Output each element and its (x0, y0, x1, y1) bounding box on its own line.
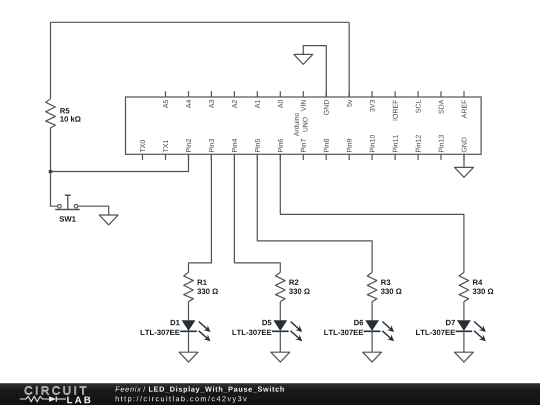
wire top rail from R5 to 5v pin (51, 21, 350, 23)
pin Pin10 bottom (371, 154, 373, 160)
label SW1 (60, 216, 76, 222)
node junction of R5 / SW1 / Pin2 wire (49, 170, 53, 174)
label R5 value 10 kOhm (60, 108, 69, 113)
wire D7 to ground (463, 331, 465, 352)
wire D6 to ground (371, 331, 373, 352)
pin 3V3 top (371, 91, 373, 97)
wire 5v pin drop (348, 22, 350, 97)
LED D7 (457, 320, 471, 331)
wire Pin3 to R1 (189, 154, 212, 272)
wire R2 to D5 (279, 302, 281, 321)
label D5 LTL-307EE (262, 320, 271, 325)
ground at top GND pin (294, 54, 313, 64)
pin A1 top (256, 91, 258, 97)
logo CIRCUIT LAB (25, 386, 86, 394)
wire Pin5 to R3 (257, 154, 372, 272)
pin Pin13 bottom (440, 154, 442, 160)
pin TX0 bottom (142, 154, 144, 160)
resistor R5 (46, 99, 56, 128)
ground at D7 (455, 352, 474, 362)
pin Pin3 bottom (210, 154, 212, 160)
pin IOREF top (394, 91, 396, 97)
ground at IC bottom GND pin (455, 167, 474, 177)
wire R1 to D1 (188, 302, 190, 321)
footer url (116, 396, 247, 403)
pin Pin12 bottom (417, 154, 419, 160)
ground at D5 (271, 352, 290, 362)
label D6 LTL-307EE (354, 320, 363, 326)
pin VIN top (302, 91, 304, 97)
pin Pin7 bottom (302, 154, 304, 160)
pin TX1 bottom (165, 154, 167, 160)
resistor R3 (367, 272, 377, 301)
label R2 value 330 Ohm (289, 280, 298, 285)
pin A4 top (188, 91, 190, 97)
wire R3 to D6 (371, 302, 373, 321)
switch SW1 (55, 195, 79, 209)
resistor R2 (276, 272, 286, 301)
pin Pin5 bottom (256, 154, 258, 160)
pin AREF top (463, 91, 465, 97)
pin Pin6 bottom (279, 154, 281, 160)
wire R4 to D7 (463, 302, 465, 321)
wire GND bottom pin to ground (463, 154, 465, 167)
footer title (115, 386, 141, 391)
pin GND top (325, 91, 327, 97)
label R4 value 330 Ohm (473, 280, 482, 285)
wire left rail below R5 to switch (51, 128, 58, 206)
pin SCL top (417, 91, 419, 97)
pin 5v top (348, 91, 350, 97)
pin GND bottom (463, 154, 465, 160)
wire Pin4 to R2 (234, 154, 280, 272)
pin Pin2 bottom (188, 154, 190, 160)
LED D6 (365, 320, 379, 331)
pin A2 top (233, 91, 235, 97)
wire GND top pin to ground (303, 46, 326, 97)
resistor R4 (459, 272, 469, 301)
pin Pin9 bottom (348, 154, 350, 160)
pin Pin4 bottom (233, 154, 235, 160)
wire D5 to ground (279, 331, 281, 352)
pin Pin11 bottom (394, 154, 396, 160)
wire Pin6 to R4 (280, 154, 464, 272)
wire junction to Pin2 (51, 154, 189, 171)
label D1 LTL-307EE (171, 320, 180, 325)
pin A0 top (279, 91, 281, 97)
IC U1 Arduino UNO body (126, 97, 482, 154)
label R3 value 330 Ohm (381, 280, 390, 286)
ground at D1 (179, 352, 198, 362)
wire D1 to ground (188, 331, 190, 352)
LED D5 (273, 320, 287, 331)
pin A5 top (165, 91, 167, 97)
wire SW1 to ground (78, 206, 109, 215)
ground at SW1 (99, 215, 118, 225)
LED D1 (182, 320, 196, 331)
ground at D6 (363, 352, 382, 362)
pin A3 top (210, 91, 212, 97)
resistor R1 (184, 272, 194, 301)
label D7 LTL-307EE (446, 320, 455, 325)
pin Pin8 bottom (325, 154, 327, 160)
label R1 value 330 Ohm (198, 280, 207, 285)
pin SDA top (440, 91, 442, 97)
wire left rail above R5 (50, 22, 52, 99)
label Arduino UNO (294, 113, 299, 136)
